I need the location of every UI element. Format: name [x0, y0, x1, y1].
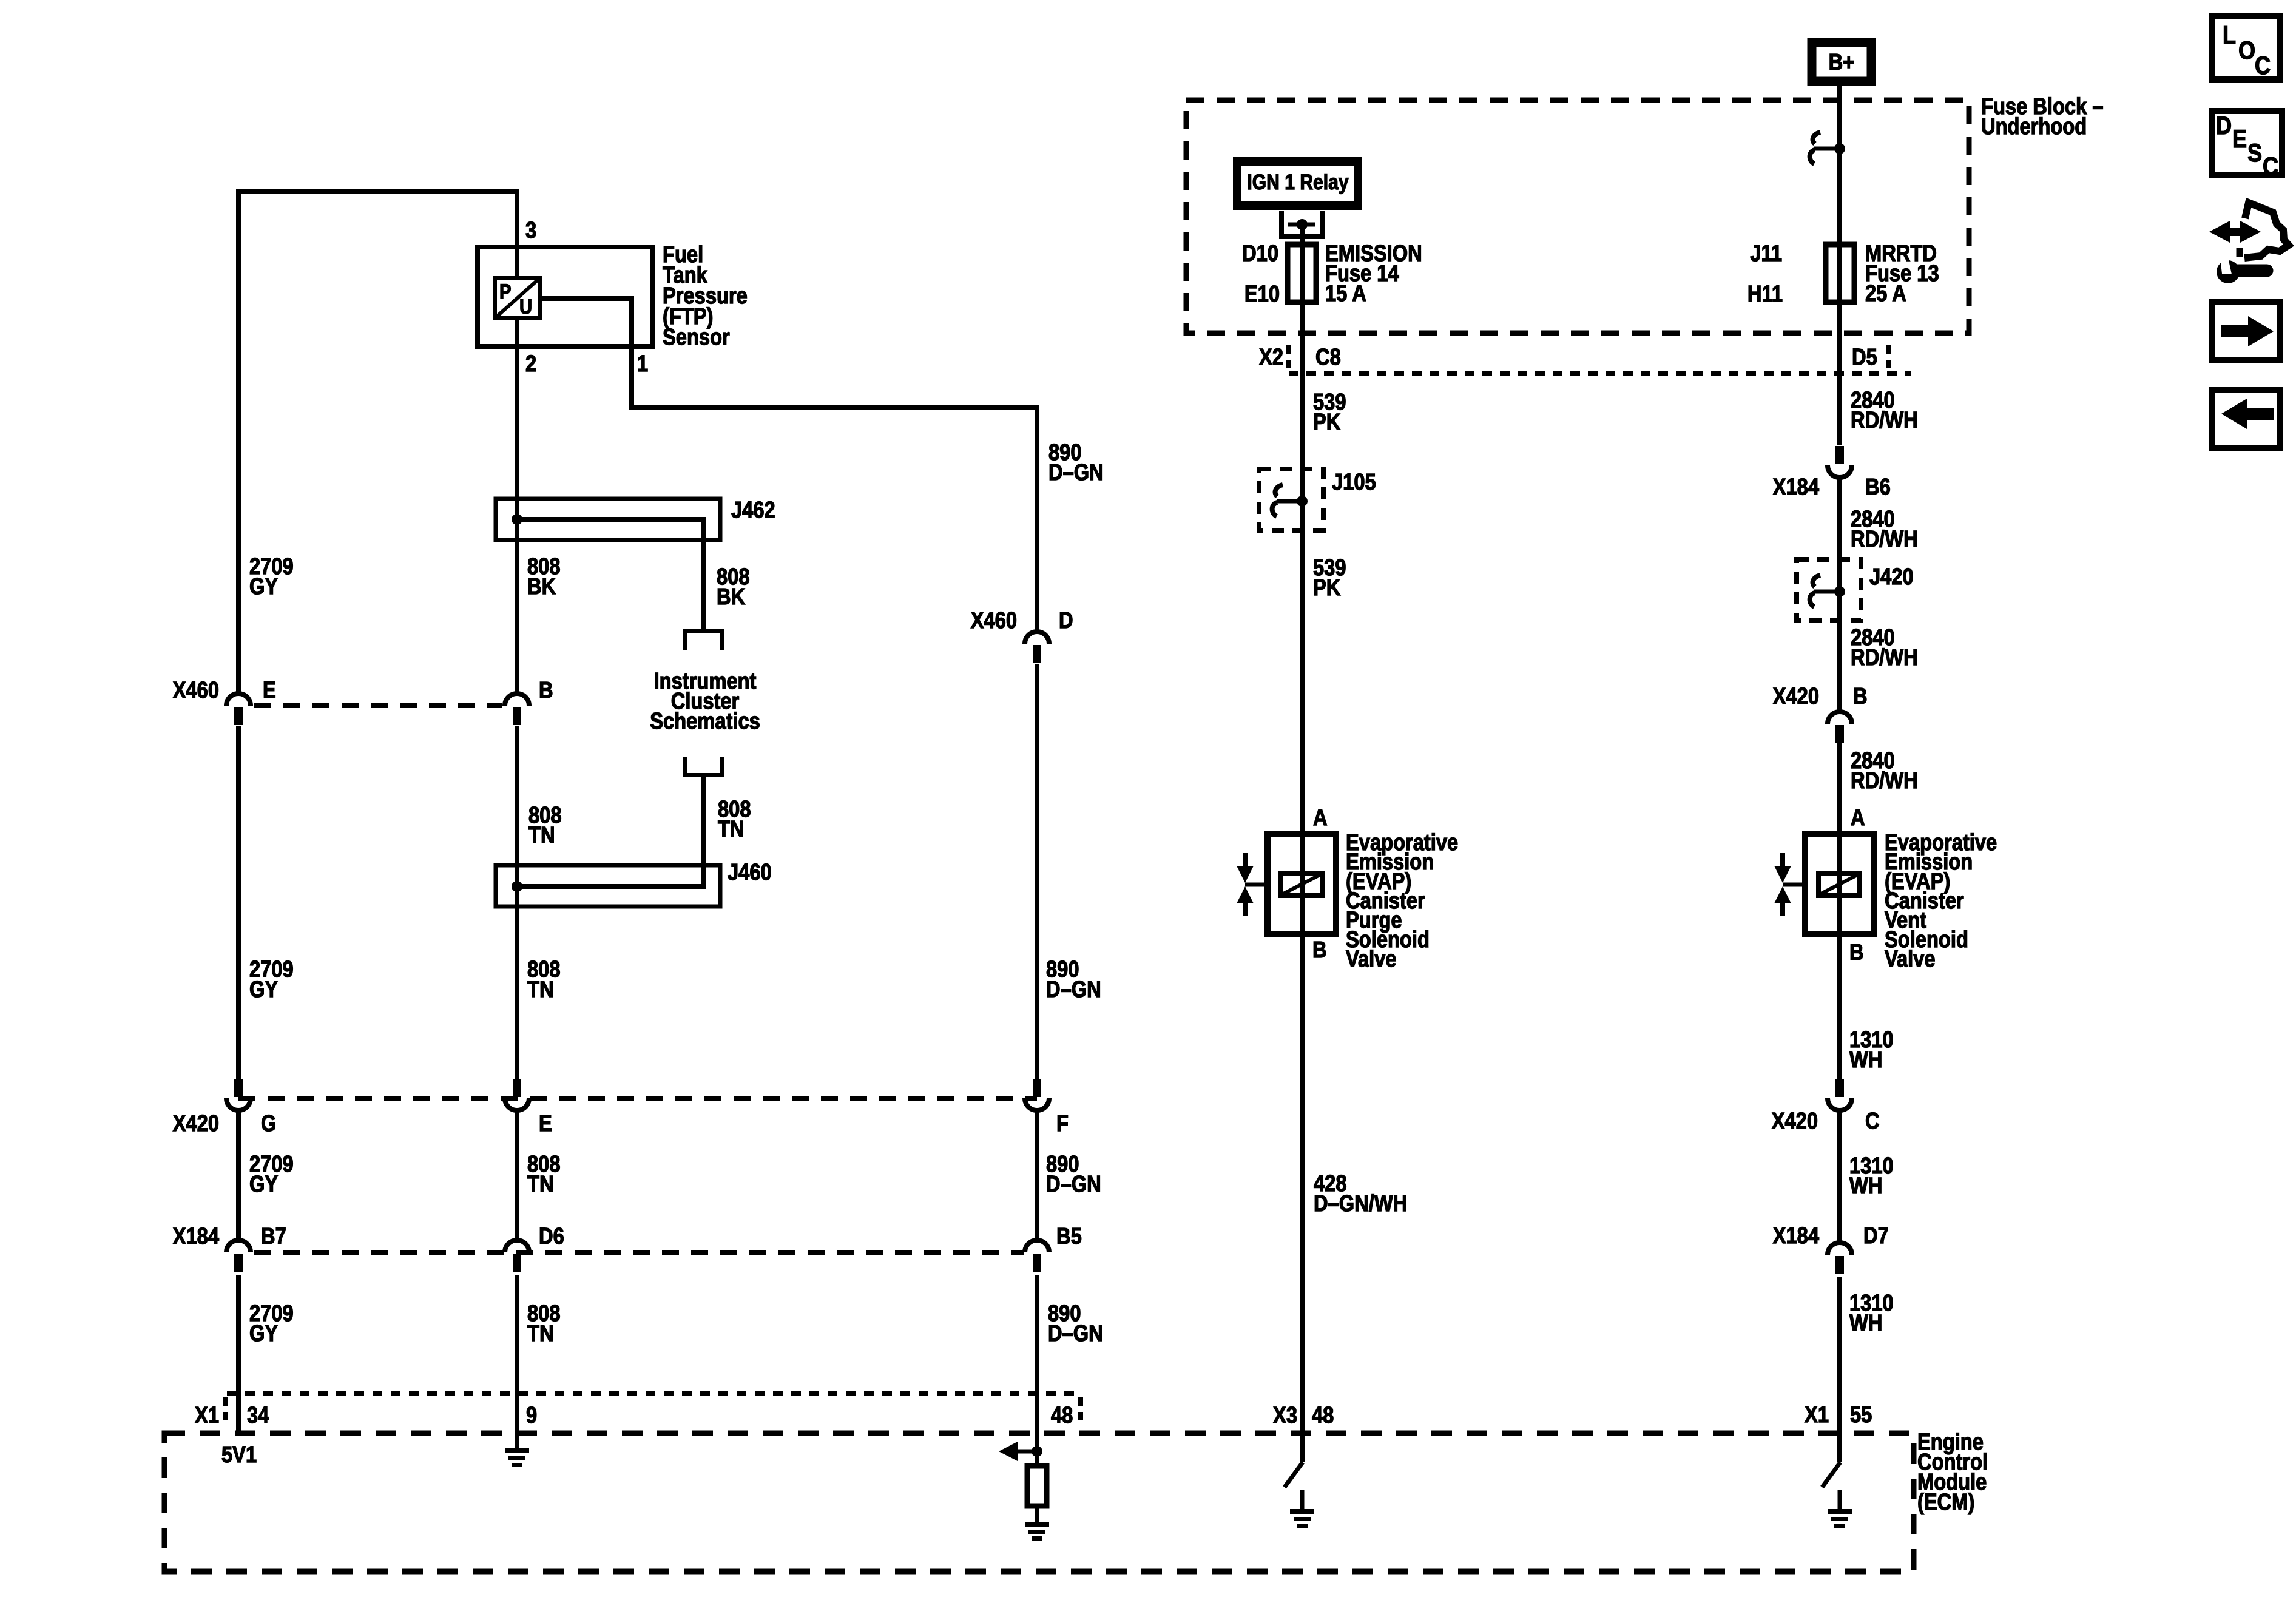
label pin C [1865, 1108, 1880, 1134]
svg-text:O: O [2238, 37, 2255, 65]
svg-text:RD/WH: RD/WH [1851, 526, 1918, 552]
splice J105 clip [1275, 485, 1283, 496]
label 2709 GY lower [249, 1151, 294, 1177]
svg-text:X3: X3 [1273, 1402, 1297, 1428]
label J105 [1332, 469, 1376, 495]
wire 2840 RD/WH X420-B to vent solenoid [1837, 741, 1842, 834]
svg-text:J11: J11 [1750, 240, 1782, 266]
svg-text:9: 9 [526, 1402, 537, 1428]
label H11 [1747, 281, 1783, 307]
svg-text:TN: TN [527, 1320, 554, 1346]
FTP sensor label [663, 241, 703, 268]
label 808 TN mid [527, 956, 561, 982]
svg-text:A: A [1313, 805, 1328, 831]
label C8 [1315, 344, 1341, 370]
label X460 (E-B row) [173, 677, 219, 703]
svg-text:E: E [2232, 126, 2247, 154]
ECM pull-down resistor at pin 48 [1027, 1466, 1047, 1506]
label 2840 RD/WH #4 [1851, 748, 1895, 774]
B+ power feed box [1812, 42, 1871, 81]
next arrow icon box [2212, 302, 2280, 360]
Engine Control Module (ECM) dashed box [164, 1433, 1914, 1571]
back arrow icon box [2212, 390, 2280, 448]
wire 2709 GY X420-G to X184-B7 [236, 1112, 241, 1239]
label pin B (X420) [1853, 683, 1868, 709]
svg-text:X1: X1 [1805, 1402, 1829, 1428]
svg-text:25 A: 25 A [1865, 280, 1906, 306]
label X1 (left) [195, 1402, 219, 1428]
label pin E (X420) [539, 1110, 552, 1136]
ECM driver switch at X1-55 [1822, 1462, 1840, 1487]
wire through purge solenoid [1300, 834, 1305, 934]
IGN 1 Relay output bracket [1279, 211, 1284, 239]
label pin 48 (X3) [1312, 1402, 1334, 1428]
connector X2 left separator [1286, 345, 1291, 371]
wire through vent solenoid [1837, 834, 1842, 934]
connector X184 row dashed line [254, 1250, 1024, 1255]
FTP sensor pin 2 label [525, 351, 536, 377]
wrench icon [2217, 260, 2240, 283]
FTP sensor box [478, 247, 652, 346]
Fuse Block - Underhood dashed box [1186, 100, 1969, 333]
fuse 14 EMISSION symbol [1288, 245, 1316, 302]
label J460 [728, 859, 772, 885]
LOC icon letters [2223, 22, 2236, 50]
EVAP canister purge solenoid valve box [1268, 834, 1336, 934]
label pin B7 [261, 1223, 286, 1249]
svg-text:F: F [1056, 1110, 1069, 1136]
label 1310 WH #2 [1849, 1153, 1894, 1179]
label pin 34 [247, 1402, 269, 1428]
label 890 D-GN lower [1046, 1151, 1079, 1177]
label 2709 GY mid [249, 956, 294, 982]
label 2709 GY upper [249, 553, 294, 579]
svg-text:J420: J420 [1869, 564, 1914, 590]
splice J105 dashed box [1259, 469, 1323, 530]
svg-text:2: 2 [525, 351, 536, 377]
connector X460 row dashed line [254, 703, 502, 708]
connector X2 dashed line [1289, 371, 1911, 376]
svg-text:J460: J460 [728, 859, 772, 885]
svg-text:TN: TN [528, 822, 555, 848]
wire fuse 14 to X2-C8 [1300, 302, 1305, 473]
connector X184 pin B5 [1025, 1240, 1049, 1252]
label 428 D-GN/WH [1314, 1170, 1347, 1197]
label X184 (B6) [1773, 474, 1820, 500]
label J11 [1750, 240, 1782, 266]
label 808 BK upper [527, 553, 561, 579]
splice J460 junction dot [512, 881, 522, 892]
svg-text:D–GN: D–GN [1046, 976, 1101, 1002]
label pin B6 [1865, 474, 1891, 500]
svg-text:GY: GY [249, 1171, 279, 1197]
wire 808 TN X184-D6 to ECM pin 9 [515, 1275, 519, 1448]
svg-text:D: D [1059, 607, 1073, 633]
svg-text:X460: X460 [173, 677, 219, 703]
svg-text:1: 1 [637, 351, 648, 377]
svg-text:48: 48 [1312, 1402, 1334, 1428]
svg-text:D6: D6 [539, 1223, 564, 1249]
wire 1310 WH X420-C to X184-D7 [1837, 1112, 1842, 1241]
connector X184 pin B6 [1828, 465, 1852, 478]
svg-text:WH: WH [1849, 1173, 1882, 1199]
label 808 TN lower [527, 1151, 561, 1177]
svg-text:B: B [1312, 937, 1327, 963]
svg-text:L: L [2223, 22, 2236, 50]
wire 890 D-GN X460-D to X420-F [1035, 664, 1039, 1079]
svg-text:RD/WH: RD/WH [1851, 768, 1918, 794]
svg-text:5V1: 5V1 [221, 1442, 257, 1468]
label pin 48 [1051, 1402, 1073, 1428]
svg-text:D: D [2216, 112, 2232, 140]
svg-text:TN: TN [527, 976, 554, 1002]
splice J420 clip [1813, 575, 1820, 587]
svg-text:(ECM): (ECM) [1917, 1489, 1974, 1515]
IGN 1 Relay output dot [1297, 219, 1308, 230]
svg-text:B: B [1849, 939, 1864, 965]
FTP sensor pin 3 label [525, 217, 536, 243]
svg-text:B+: B+ [1829, 49, 1855, 75]
connector X184 pin B7 [226, 1240, 251, 1252]
IGN 1 Relay box [1237, 161, 1358, 206]
ECM switch ground (X1-55) [1828, 1509, 1852, 1514]
label 1310 WH #3 [1849, 1290, 1894, 1316]
instrument cluster schematics label [654, 668, 757, 694]
wire FTP pin 1 lead to 890 D-GN [540, 299, 1037, 632]
svg-text:C8: C8 [1315, 344, 1341, 370]
DESC icon box [2212, 111, 2282, 175]
label pin A (vent) [1851, 805, 1865, 831]
svg-text:U: U [519, 295, 532, 319]
LOC icon box [2212, 16, 2280, 79]
label 2840 RD/WH #1 [1851, 387, 1895, 413]
connector X420 pin F [1025, 1098, 1049, 1110]
label pin B [539, 677, 553, 703]
connector X460 pin D [1025, 632, 1049, 644]
label pin B (vent) [1849, 939, 1864, 965]
wire 2709 GY X460-E to X420-G [236, 726, 241, 1079]
svg-text:G: G [261, 1110, 276, 1136]
wire 808 TN X460-B to X420-E [515, 726, 519, 1079]
connector X1 dotted line (ECM left) [227, 1391, 1081, 1396]
wire 2709 GY X184-B7 to ECM pin 34 [236, 1275, 241, 1433]
svg-text:C: C [2263, 153, 2278, 181]
svg-text:X420: X420 [1773, 683, 1819, 709]
label pin B5 [1056, 1223, 1082, 1249]
svg-text:J105: J105 [1332, 469, 1376, 495]
label J462 [731, 497, 775, 523]
svg-text:55: 55 [1850, 1402, 1872, 1428]
svg-text:TN: TN [718, 816, 745, 842]
connector X1 right separator [1078, 1397, 1083, 1425]
label 2709 GY bottom [249, 1300, 294, 1326]
label 890 D-GN upper [1048, 439, 1082, 465]
svg-text:X420: X420 [1772, 1108, 1818, 1134]
svg-text:B7: B7 [261, 1223, 286, 1249]
wire 2709 GY from FTP sensor pin 3 to X460-E [238, 191, 517, 695]
label Engine Control Module (ECM) [1917, 1429, 1984, 1455]
label 539 PK upper [1313, 389, 1346, 415]
harness double arrow icon [2209, 221, 2261, 243]
ECM switch ground (X3-48) [1290, 1509, 1314, 1514]
svg-text:GY: GY [249, 976, 279, 1002]
label D10 [1242, 240, 1278, 266]
svg-text:34: 34 [247, 1402, 269, 1428]
label 539 PK lower [1313, 555, 1346, 581]
connector X1 left separator [223, 1397, 228, 1425]
label pin D [1059, 607, 1073, 633]
wire 808 BK from FTP pin 2 to X460-B [515, 316, 519, 695]
label Fuse Block - Underhood [1981, 93, 2104, 120]
ECM driver switch at X3-48 [1285, 1462, 1303, 1487]
svg-text:E: E [539, 1110, 552, 1136]
connector X420 pin G [226, 1098, 251, 1110]
svg-text:15 A: 15 A [1325, 280, 1366, 306]
svg-text:B: B [539, 677, 553, 703]
wire relay to fuse 14 [1300, 224, 1305, 245]
label IGN 1 Relay [1247, 170, 1348, 194]
connector X2 right separator [1886, 345, 1891, 371]
label 890 D-GN mid [1046, 956, 1079, 982]
wire 890 D-GN X184-B5 to ECM pin 48 [1035, 1275, 1039, 1450]
svg-text:X184: X184 [173, 1223, 220, 1249]
svg-text:D–GN: D–GN [1046, 1171, 1101, 1197]
harness wire shape icon [2244, 203, 2289, 258]
connector X460 pin E [226, 694, 251, 706]
label X460 (D) [971, 607, 1017, 633]
svg-text:H11: H11 [1747, 281, 1783, 307]
label pin 55 [1850, 1402, 1872, 1428]
wire fuse 13 to X184-B6 [1837, 302, 1842, 445]
connector X420 pin B [1828, 712, 1852, 724]
svg-text:Valve: Valve [1346, 946, 1397, 972]
svg-text:J462: J462 [731, 497, 775, 523]
label X420 row [173, 1110, 219, 1136]
svg-text:TN: TN [527, 1171, 554, 1197]
svg-text:C: C [2255, 52, 2271, 80]
label X420 (B) [1773, 683, 1819, 709]
svg-text:48: 48 [1051, 1402, 1073, 1428]
off-page connector to instrument cluster (top) [683, 629, 724, 633]
label pin D7 [1863, 1223, 1889, 1249]
svg-text:A: A [1851, 805, 1865, 831]
back arrow glyph [2221, 399, 2274, 429]
label pin E [263, 677, 276, 703]
label EVAP purge solenoid [1346, 829, 1458, 856]
svg-text:E: E [263, 677, 276, 703]
off-page connector from instrument cluster (bottom) [683, 773, 724, 777]
label 808 BK branch [717, 564, 750, 590]
svg-text:Valve: Valve [1885, 946, 1936, 972]
svg-text:C: C [1865, 1108, 1880, 1134]
svg-text:X420: X420 [173, 1110, 219, 1136]
DESC icon letters [2216, 112, 2232, 140]
wire 890 D-GN X420-F to X184-B5 [1035, 1112, 1039, 1239]
svg-text:D–GN/WH: D–GN/WH [1314, 1190, 1407, 1217]
label 5V1 [221, 1442, 257, 1468]
label pin A (purge) [1313, 805, 1328, 831]
next arrow glyph [2221, 316, 2274, 346]
label D5 [1852, 344, 1877, 370]
svg-text:WH: WH [1849, 1310, 1882, 1336]
fuse 13 MRRTD symbol [1826, 245, 1854, 302]
label 808 TN left of branch [528, 802, 562, 828]
wire 808 TN from instrument cluster to J460 splice [517, 777, 703, 886]
connector X184 pin D7 [1828, 1243, 1852, 1255]
wire J462 splice branch to instrument cluster [517, 519, 703, 632]
svg-text:B6: B6 [1865, 474, 1891, 500]
label X184 (D7) [1773, 1223, 1820, 1249]
svg-text:PK: PK [1313, 409, 1341, 435]
svg-text:3: 3 [525, 217, 536, 243]
FTP sensor pin 1 label [637, 351, 648, 377]
label pin D6 [539, 1223, 564, 1249]
wire 2840 RD/WH B6 to J420 [1837, 479, 1842, 711]
svg-text:B5: B5 [1056, 1223, 1082, 1249]
connector X420 pin E [505, 1098, 529, 1110]
svg-text:PK: PK [1313, 575, 1341, 601]
svg-text:D10: D10 [1242, 240, 1278, 266]
label E10 [1244, 281, 1280, 307]
svg-text:D–GN: D–GN [1048, 459, 1104, 485]
branch clip at B+ feed [1813, 132, 1820, 144]
svg-text:S: S [2247, 140, 2262, 167]
vent solenoid check valve [1780, 853, 1785, 868]
svg-text:E10: E10 [1244, 281, 1280, 307]
wire B+ to fuse 13 [1837, 82, 1842, 245]
label pin G [261, 1110, 276, 1136]
svg-text:GY: GY [249, 1320, 279, 1346]
connector X420 row dashed line [238, 1096, 1037, 1101]
label pin F [1056, 1110, 1069, 1136]
svg-text:Sensor: Sensor [663, 324, 730, 350]
label pin 9 [526, 1402, 537, 1428]
svg-text:D5: D5 [1852, 344, 1877, 370]
svg-text:RD/WH: RD/WH [1851, 407, 1918, 433]
svg-text:X184: X184 [1773, 1223, 1820, 1249]
label 1310 WH #1 [1849, 1027, 1894, 1053]
label 2840 RD/WH #2 [1851, 506, 1895, 532]
label B+ [1829, 49, 1855, 75]
wire 428 D-GN/WH purge solenoid to ECM [1300, 934, 1305, 1462]
wire 808 TN X420-E to X184-D6 [515, 1112, 519, 1239]
wire 1310 WH vent solenoid to X420-C [1837, 934, 1842, 1079]
label 890 D-GN bottom [1048, 1300, 1081, 1326]
svg-text:D7: D7 [1863, 1223, 1889, 1249]
svg-text:IGN 1 Relay: IGN 1 Relay [1247, 170, 1348, 194]
svg-text:D–GN: D–GN [1048, 1320, 1103, 1346]
connector X420 pin C [1828, 1098, 1852, 1110]
label X184 row [173, 1223, 220, 1249]
label 808 TN right branch [718, 796, 751, 822]
svg-text:BK: BK [527, 573, 556, 599]
wire 1310 WH X184-D7 to ECM pin 55 [1837, 1277, 1842, 1462]
svg-text:Schematics: Schematics [650, 708, 760, 734]
label 808 TN bottom [527, 1300, 561, 1326]
svg-text:X184: X184 [1773, 474, 1820, 500]
label X3 (ECM) [1273, 1402, 1297, 1428]
svg-text:WH: WH [1849, 1047, 1882, 1073]
ECM pin 48 node dot [1032, 1446, 1042, 1457]
ECM resistor ground [1025, 1522, 1049, 1527]
svg-text:RD/WH: RD/WH [1851, 644, 1918, 670]
connector X184 pin D6 [505, 1240, 529, 1252]
svg-text:X1: X1 [195, 1402, 219, 1428]
splice J462 junction dot [512, 514, 522, 525]
svg-text:B: B [1853, 683, 1868, 709]
label J420 [1869, 564, 1914, 590]
label EMISSION Fuse 14 15 A [1325, 240, 1422, 266]
label 2840 RD/WH #3 [1851, 624, 1895, 650]
svg-text:BK: BK [717, 584, 746, 610]
ECM internal ground at pin 9 [505, 1448, 529, 1453]
label pin B (purge) [1312, 937, 1327, 963]
connector X460 pin B [505, 694, 529, 706]
label X420 (C) [1772, 1108, 1818, 1134]
ECM pin 48 signal arrow [1018, 1450, 1035, 1454]
label MRRTD Fuse 13 25 A [1865, 240, 1937, 266]
splice pack J460 box [496, 865, 720, 906]
label EVAP vent solenoid [1885, 829, 1997, 856]
svg-text:Underhood: Underhood [1981, 113, 2087, 140]
splice pack J462 box [496, 499, 720, 540]
label X1 (right) [1805, 1402, 1829, 1428]
svg-text:P: P [499, 280, 511, 303]
splice J420 dashed box [1797, 559, 1861, 621]
svg-text:X460: X460 [971, 607, 1017, 633]
purge solenoid check valve [1243, 853, 1248, 868]
EVAP canister vent solenoid valve box [1805, 834, 1874, 934]
label X2 [1259, 344, 1283, 370]
wire 539 PK J105 to purge solenoid [1300, 473, 1305, 834]
svg-text:GY: GY [249, 573, 279, 599]
FTP sensor P/U transducer symbol [495, 278, 540, 318]
svg-text:X2: X2 [1259, 344, 1283, 370]
